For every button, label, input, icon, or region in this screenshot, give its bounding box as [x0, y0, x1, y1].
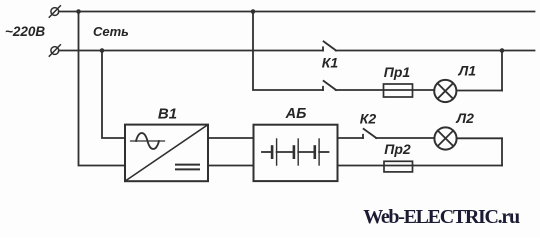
- node junction A2: [251, 9, 256, 14]
- lamp L1: [434, 80, 456, 102]
- svg-text:АБ: АБ: [285, 106, 307, 122]
- wire row C middle: [336, 89, 435, 91]
- B1 AC sine symbol: [131, 133, 165, 149]
- switch K2: [363, 129, 376, 138]
- wire row C right: [456, 90, 502, 92]
- wire D2: AB to switch K2: [338, 137, 364, 139]
- switch K1 pole a: [323, 41, 336, 50]
- svg-text:Пр1: Пр1: [384, 64, 411, 80]
- node junction B2: [500, 48, 505, 53]
- wire row A (top mains wire): [59, 11, 535, 13]
- wire V4 up to junction B2: [501, 51, 503, 91]
- wire D3: K2 to lamp L2: [376, 137, 434, 139]
- svg-text:Сеть: Сеть: [93, 24, 129, 39]
- svg-text:К2: К2: [360, 111, 377, 127]
- rectifier U=B1 box: [125, 125, 208, 182]
- svg-text:Web-ELECTRIC.ru: Web-ELECTRIC.ru: [363, 206, 520, 228]
- svg-text:Л2: Л2: [455, 110, 474, 126]
- svg-text:Пр2: Пр2: [384, 141, 411, 157]
- wire row B right segment: [336, 50, 535, 52]
- svg-text:К1: К1: [322, 54, 339, 70]
- svg-text:В1: В1: [158, 105, 177, 122]
- wire E2: AB lower to right vertical through fuse: [338, 165, 503, 167]
- wire D4: L2 to right vertical: [457, 137, 502, 139]
- wire row B left segment: [59, 50, 323, 52]
- battery cells inside AB: [262, 139, 329, 165]
- fuse Pr1: [384, 84, 413, 97]
- lamp L2: [434, 127, 456, 149]
- svg-text:Л1: Л1: [458, 63, 477, 79]
- node junction A1: [76, 9, 81, 14]
- wire D1: B1 to AB upper: [208, 137, 254, 139]
- B1 DC equals symbol: [176, 165, 199, 170]
- wire V1 to rectifier lower input: [79, 12, 126, 166]
- node junction B1: [100, 48, 105, 53]
- wire V2 to rectifier upper input: [102, 51, 125, 139]
- fuse Pr2: [384, 161, 413, 172]
- wire V5 right return vertical: [501, 138, 503, 165]
- wire E1: B1 to AB lower: [208, 165, 254, 167]
- wire V3 lamp L1 branch drop: [253, 12, 323, 91]
- svg-text:~220В: ~220В: [5, 24, 45, 39]
- terminal X1 (~220V line 1): [49, 6, 60, 17]
- switch K1 pole b: [323, 81, 336, 90]
- terminal X2 (~220V line 2): [49, 45, 60, 56]
- battery AB box: [254, 125, 338, 181]
